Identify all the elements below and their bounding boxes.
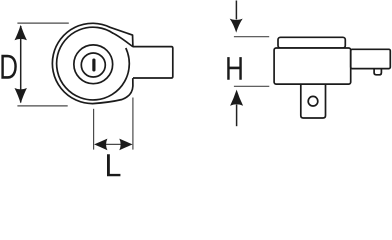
D dimension bottom tick — [17, 105, 67, 107]
ratchet head outline (front view): neck line + flares + outer circle — [52, 23, 133, 103]
label L — [107, 154, 120, 176]
L extension line left — [93, 109, 95, 150]
side view main body — [274, 48, 351, 84]
side view top plate — [278, 37, 345, 48]
L extension line right — [132, 98, 134, 150]
L arrow left — [94, 139, 107, 151]
H bottom stem — [236, 105, 238, 127]
label D — [1, 55, 16, 79]
L dimension line — [105, 143, 122, 145]
side view tang — [351, 49, 391, 68]
H arrow down — [230, 19, 243, 33]
tang notch — [374, 69, 381, 75]
label H — [227, 57, 242, 80]
H bottom tick — [234, 85, 269, 87]
D arrow up — [15, 25, 27, 40]
H arrow up — [230, 90, 243, 106]
H top tick — [234, 36, 269, 38]
rim circle (inner ring of head), right arc visible in tang gap — [57, 27, 130, 100]
boss circle — [74, 45, 113, 84]
D arrow down — [15, 88, 27, 103]
H dimension top stem — [235, 1, 237, 20]
drive pin hole — [308, 96, 318, 106]
square drive — [301, 84, 326, 118]
tang (front view) — [133, 47, 173, 78]
inner circle — [81, 53, 105, 77]
center slot — [92, 59, 95, 72]
D dimension line — [20, 26, 22, 103]
shoulder line from rim to tang corner — [113, 33, 133, 46]
L arrow right — [119, 139, 132, 151]
D dimension top tick — [17, 22, 68, 24]
